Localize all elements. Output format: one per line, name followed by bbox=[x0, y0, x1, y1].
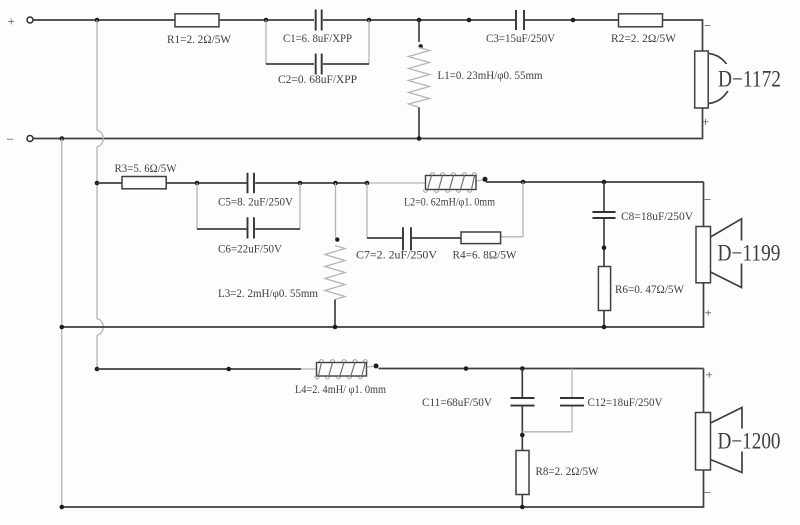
junction C5-C6 left bbox=[195, 181, 200, 186]
capacitor C2 bbox=[316, 54, 322, 75]
junction C11-R8 bbox=[520, 433, 525, 438]
junction feed bus to woofer line bbox=[95, 367, 100, 372]
wire: ground bus (vertical) bbox=[61, 139, 63, 508]
svg-text:C5=8. 2uF/250V: C5=8. 2uF/250V bbox=[218, 195, 293, 209]
svg-text:R4=6. 8Ω/5W: R4=6. 8Ω/5W bbox=[453, 248, 518, 262]
junction on top rail at feed bus bbox=[95, 18, 100, 23]
capacitor C7 bbox=[403, 227, 411, 250]
wire: midrange bottom rail bbox=[62, 283, 704, 327]
svg-text:C3=15uF/250V: C3=15uF/250V bbox=[486, 31, 555, 45]
junction C7 branch bbox=[365, 181, 370, 186]
svg-text:C7=2. 2uF/250V: C7=2. 2uF/250V bbox=[356, 248, 437, 262]
wire: tweeter bottom rail (minus rail) bbox=[33, 108, 702, 139]
junction R8 bottom bbox=[520, 505, 525, 510]
svg-text:C11=68uF/50V: C11=68uF/50V bbox=[422, 395, 492, 409]
junction R6 bottom bbox=[602, 325, 607, 330]
capacitor C5 bbox=[248, 173, 255, 194]
wire: woofer feed line bbox=[97, 367, 704, 413]
wire: midrange main line bbox=[97, 180, 704, 227]
junction on top rail bbox=[467, 18, 472, 23]
wire: C6 parallel branch bbox=[197, 183, 300, 229]
svg-text:R2=2. 2Ω/5W: R2=2. 2Ω/5W bbox=[611, 31, 677, 45]
inductor L3 bbox=[325, 183, 345, 327]
resistor R6 bbox=[598, 267, 610, 311]
svg-text:C1=6. 8uF/XPP: C1=6. 8uF/XPP bbox=[283, 31, 352, 45]
resistor R3 bbox=[122, 177, 166, 189]
inductor L2 bbox=[424, 173, 477, 193]
wire: C8/R6 shunt branch bbox=[603, 182, 605, 327]
junction on woofer feed bbox=[226, 367, 231, 372]
svg-text:L4=2. 4mH/ φ1. 0mm: L4=2. 4mH/ φ1. 0mm bbox=[295, 382, 387, 396]
junction L3 bottom bbox=[333, 325, 338, 330]
junction minus rail to ground bus bbox=[60, 136, 65, 141]
svg-text:R1=2. 2Ω/5W: R1=2. 2Ω/5W bbox=[167, 32, 232, 46]
wire: top rail of tweeter section bbox=[33, 20, 702, 51]
svg-text:R3=5. 6Ω/5W: R3=5. 6Ω/5W bbox=[115, 161, 178, 175]
junction L2 output bbox=[483, 177, 488, 182]
svg-text:+: + bbox=[702, 114, 709, 129]
wire: C2 parallel branch bbox=[266, 20, 369, 64]
speaker D-1199 bbox=[696, 219, 782, 288]
junction C5-C6 right bbox=[298, 181, 303, 186]
junction C1-C2 right bbox=[367, 18, 372, 23]
svg-text:−: − bbox=[704, 485, 711, 500]
junction C11 top bbox=[520, 366, 525, 371]
svg-text:L3=2. 2mH/φ0. 55mm: L3=2. 2mH/φ0. 55mm bbox=[218, 286, 319, 300]
speaker D-1172 bbox=[695, 51, 783, 108]
junction feed bus to R3 bbox=[95, 181, 100, 186]
svg-text:D−1200: D−1200 bbox=[718, 429, 781, 454]
capacitor C3 bbox=[516, 10, 524, 30]
junction C7-R4 branch rejoin bbox=[521, 180, 526, 185]
svg-text:R6=0. 47Ω/5W: R6=0. 47Ω/5W bbox=[615, 282, 685, 296]
svg-text:−: − bbox=[704, 18, 711, 33]
node: plus input terminal bbox=[8, 14, 34, 29]
capacitor C8 bbox=[593, 212, 616, 218]
junction L3 top bbox=[333, 181, 338, 186]
inductor L4 bbox=[315, 360, 368, 379]
svg-text:C8=18uF/250V: C8=18uF/250V bbox=[621, 209, 693, 223]
wire: C11/R8 shunt branch bbox=[521, 369, 523, 508]
svg-text:D−1172: D−1172 bbox=[718, 67, 781, 92]
junction at L1 top bbox=[417, 18, 422, 23]
inductor L1 bbox=[409, 20, 430, 139]
junction on woofer feed right bbox=[464, 366, 469, 371]
resistor R4 bbox=[461, 232, 501, 244]
capacitor C6 bbox=[248, 217, 255, 238]
resistor R8 bbox=[516, 451, 529, 495]
svg-text:D−1199: D−1199 bbox=[718, 241, 781, 266]
junction C3-R2 bbox=[571, 18, 576, 23]
node: minus input terminal bbox=[7, 132, 34, 147]
junction R1-C1 bbox=[264, 18, 269, 23]
capacitor C11 bbox=[511, 398, 535, 406]
svg-text:L2=0. 62mH/φ1. 0mm: L2=0. 62mH/φ1. 0mm bbox=[404, 195, 496, 209]
junction mid rail to ground bus bbox=[60, 325, 65, 330]
junction C8-R6 bbox=[602, 245, 607, 250]
wire: C7/R4 series branch bbox=[367, 182, 523, 238]
junction bottom rail to ground bus bbox=[60, 505, 65, 510]
resistor R1 bbox=[175, 14, 219, 27]
svg-text:+: + bbox=[706, 367, 713, 382]
svg-text:L1=0. 23mH/φ0. 55mm: L1=0. 23mH/φ0. 55mm bbox=[438, 68, 544, 82]
wire: woofer bottom rail bbox=[62, 470, 704, 507]
junction C8 top bbox=[602, 180, 607, 185]
svg-text:−: − bbox=[704, 192, 711, 207]
junction L1 bottom bbox=[417, 136, 422, 141]
svg-text:R8=2. 2Ω/5W: R8=2. 2Ω/5W bbox=[536, 464, 600, 478]
wire: plus feed bus (vertical) with hops bbox=[97, 20, 103, 369]
speaker D-1200 bbox=[696, 408, 783, 473]
svg-text:C6=22uF/50V: C6=22uF/50V bbox=[218, 242, 282, 256]
junction L4 output bbox=[374, 364, 379, 369]
svg-text:+: + bbox=[8, 14, 15, 29]
resistor R2 bbox=[619, 14, 663, 27]
svg-text:+: + bbox=[705, 305, 712, 320]
svg-text:C2=0. 68uF/XPP: C2=0. 68uF/XPP bbox=[278, 72, 357, 86]
svg-text:C12=18uF/250V: C12=18uF/250V bbox=[588, 395, 663, 409]
svg-text:−: − bbox=[7, 132, 14, 147]
wire: C12 parallel branch bbox=[522, 369, 572, 432]
capacitor C12 bbox=[560, 398, 584, 406]
capacitor C1 bbox=[316, 10, 322, 31]
